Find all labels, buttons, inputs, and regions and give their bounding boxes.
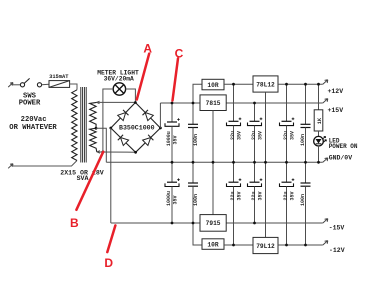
- wire -15V rail: [226, 222, 323, 224]
- annotation line B: [76, 152, 103, 210]
- node C11 on -12V line: [285, 244, 288, 247]
- node 7815/7915 gnd on 0V rail: [212, 161, 215, 164]
- regulator U4 79L12: [253, 237, 278, 253]
- input terminal L (220Vac live): [8, 83, 13, 88]
- svg-text:B350C1000: B350C1000: [119, 125, 155, 132]
- node C6 on 0V rail: [304, 161, 307, 164]
- resistor R2 10R: [202, 239, 224, 250]
- node C3 on 78L12 input line: [232, 83, 235, 86]
- wire 10R to 78L12: [224, 83, 253, 85]
- svg-text:A: A: [143, 42, 152, 56]
- node bridge left corner (neg out): [109, 127, 112, 130]
- svg-text:+12V: +12V: [328, 88, 344, 95]
- node 1K branch on +12V line: [317, 83, 320, 86]
- wire 0V rail GND: [106, 161, 322, 163]
- wire center tap to 0V rail: [96, 128, 106, 162]
- node C5 on +12V line: [285, 83, 288, 86]
- svg-text:22u: 22u: [251, 191, 257, 200]
- capacitor C11 22u 35V (-12V out): [286, 162, 288, 182]
- svg-text:POWER ON: POWER ON: [329, 143, 358, 150]
- svg-text:1K: 1K: [317, 117, 323, 124]
- wire +12V to 1K: [318, 84, 320, 110]
- wire -12V line: [278, 244, 323, 246]
- wire 10R branch up: [193, 84, 202, 103]
- wire secondary bottom to bridge bottom corner: [97, 151, 136, 153]
- node bridge top corner (AC1): [134, 101, 137, 104]
- svg-text:B: B: [70, 216, 79, 230]
- svg-text:-12V: -12V: [329, 247, 345, 254]
- fuse F1 315mAT: [49, 81, 70, 88]
- svg-text:1000u: 1000u: [166, 191, 172, 206]
- svg-text:22u: 22u: [283, 131, 289, 140]
- wire LED to 0V rail: [318, 146, 320, 162]
- node C4 on 0V rail: [253, 161, 256, 164]
- svg-text:78L12: 78L12: [256, 81, 275, 88]
- wire 78L12 gnd pin / 79L12 gnd pin: [265, 92, 267, 237]
- wire lamp left to node B: [103, 89, 113, 152]
- capacitor C3 22u 35V (78L12 in): [233, 84, 235, 121]
- node LED on 0V rail: [317, 161, 320, 164]
- output terminal +15V: [323, 99, 328, 103]
- svg-text:35V: 35V: [172, 195, 178, 204]
- svg-text:35V: 35V: [258, 191, 264, 200]
- node bridge bottom corner (AC2): [134, 151, 137, 154]
- svg-text:7815: 7815: [206, 100, 221, 107]
- svg-text:100n: 100n: [193, 134, 199, 146]
- svg-text:100n: 100n: [193, 194, 199, 206]
- svg-text:35V: 35V: [290, 131, 296, 140]
- wire secondary top to bridge top corner: [97, 101, 136, 103]
- transformer T1 primary winding: [72, 90, 77, 161]
- node C4 on +15V rail: [253, 102, 256, 105]
- annotation line A: [137, 54, 149, 100]
- svg-text:35V: 35V: [172, 135, 178, 144]
- svg-text:OR WHATEVER: OR WHATEVER: [9, 124, 57, 132]
- capacitor C6 100n (+12V out): [305, 84, 307, 124]
- wire bridge neg to -raw rail: [110, 128, 112, 223]
- diode BR1-D3 (bottom-left edge): [121, 138, 129, 146]
- wire 1K to LED: [318, 131, 320, 136]
- capacitor C8 100n (raw-): [192, 162, 194, 183]
- wire neutral input to primary bottom: [12, 161, 78, 167]
- resistor R3 1K: [314, 110, 323, 131]
- LED D5 POWER ON: [314, 136, 324, 146]
- capacitor C4 22u 35V (+15V out): [254, 103, 256, 121]
- svg-text:35V: 35V: [237, 131, 243, 140]
- node C1 top on +raw rail: [171, 102, 174, 105]
- capacitor C7 1000u 35V (raw-): [171, 162, 173, 182]
- svg-text:35V: 35V: [258, 131, 264, 140]
- svg-text:10R: 10R: [207, 82, 218, 89]
- node C10 on -15V rail: [253, 222, 256, 225]
- capacitor C9 22u 35V (79L12 in): [233, 162, 235, 182]
- wire -raw rail: [111, 222, 200, 224]
- wire switch to fuse: [42, 83, 49, 86]
- capacitor C10 22u 35V (-15V out): [254, 162, 256, 182]
- capacitor C5 22u 35V (+12V out): [286, 84, 288, 121]
- wire +raw rail: [160, 102, 200, 104]
- node 10R2/C8 branch on -raw rail: [192, 222, 195, 225]
- switch SW1 SWS POWER: [20, 78, 41, 87]
- regulator U3 7915: [200, 215, 226, 232]
- capacitor C12 100n (-12V out): [305, 162, 307, 183]
- node C5 on 0V rail: [285, 161, 288, 164]
- node 78L12/79L12 gnd on 0V rail: [264, 161, 267, 164]
- svg-text:35V: 35V: [237, 191, 243, 200]
- svg-text:1000u: 1000u: [166, 131, 172, 146]
- node 10R/C2 branch on +raw rail: [192, 102, 195, 105]
- svg-text:22u: 22u: [230, 191, 236, 200]
- svg-text:22u: 22u: [251, 131, 257, 140]
- wire 7815 gnd pin / 7915 gnd pin: [212, 111, 214, 215]
- node transformer center tap: [95, 127, 98, 130]
- output terminal +12V: [323, 80, 328, 84]
- node bridge right corner (pos out): [159, 127, 162, 130]
- svg-text:35V: 35V: [290, 191, 296, 200]
- wire +15V rail: [226, 102, 323, 104]
- node C3 on 0V rail: [232, 161, 235, 164]
- pin marker secondary top: [97, 101, 100, 104]
- input terminal N (220Vac neutral): [8, 164, 13, 169]
- capacitor C1 1000u 35V (raw+): [171, 103, 173, 122]
- output terminal GND/0V: [323, 158, 328, 162]
- bridge rectifier BR1 B350C1000 outline: [111, 103, 136, 129]
- svg-text:220Vac: 220Vac: [21, 116, 47, 124]
- svg-text:+15V: +15V: [328, 107, 344, 114]
- node C6 on +12V line: [304, 83, 307, 86]
- svg-text:SVA: SVA: [77, 175, 89, 182]
- svg-text:79L12: 79L12: [256, 243, 275, 250]
- regulator U1 7815: [200, 95, 226, 111]
- resistor R1 10R: [202, 79, 224, 90]
- wire fuse to primary top: [70, 84, 77, 90]
- node C9 on 79L12 input line: [232, 244, 235, 247]
- transformer T1 secondary winding: [90, 102, 97, 151]
- svg-text:10R: 10R: [207, 241, 218, 248]
- output terminal -12V: [323, 241, 328, 245]
- svg-text:100n: 100n: [300, 134, 306, 146]
- node C7 on -raw rail: [171, 222, 174, 225]
- svg-text:100n: 100n: [300, 194, 306, 206]
- node C12 on -12V line: [304, 244, 307, 247]
- svg-text:7915: 7915: [206, 220, 221, 227]
- output terminal -15V: [323, 219, 328, 223]
- capacitor C2 100n (raw+): [192, 103, 194, 124]
- regulator U2 78L12: [253, 76, 278, 92]
- node C2 on 0V rail: [192, 161, 195, 164]
- annotation line D: [107, 225, 115, 252]
- wire +12V line: [278, 83, 323, 85]
- wire bridge pos to +raw rail: [159, 103, 161, 128]
- svg-text:POWER: POWER: [19, 99, 41, 107]
- svg-text:315mAT: 315mAT: [49, 74, 69, 80]
- svg-text:GND/0V: GND/0V: [329, 155, 353, 162]
- wire 10R2 to 79L12: [224, 244, 253, 246]
- diode BR1-D4 (bottom-right edge): [143, 138, 151, 146]
- wire live input to switch: [12, 84, 21, 86]
- node B junction lamp/secondary bottom: [102, 151, 105, 154]
- wire lamp right to bridge top: [126, 89, 136, 102]
- svg-text:-15V: -15V: [329, 224, 345, 231]
- lamp LP1 METER LIGHT: [113, 83, 125, 95]
- diode BR1-D1 (left-top edge): [118, 113, 126, 121]
- svg-text:22u: 22u: [283, 191, 289, 200]
- diode BR1-D2 (right-top edge): [145, 113, 153, 121]
- svg-text:22u: 22u: [230, 131, 236, 140]
- svg-text:C: C: [175, 46, 184, 60]
- node C1 on 0V rail: [171, 161, 174, 164]
- svg-text:D: D: [104, 256, 113, 270]
- transformer T1 core: [80, 87, 82, 163]
- svg-text:36V/20mA: 36V/20mA: [104, 76, 134, 83]
- wire 10R2 branch down: [193, 223, 202, 245]
- pin marker secondary bottom: [97, 151, 100, 154]
- annotation line C: [173, 58, 179, 100]
